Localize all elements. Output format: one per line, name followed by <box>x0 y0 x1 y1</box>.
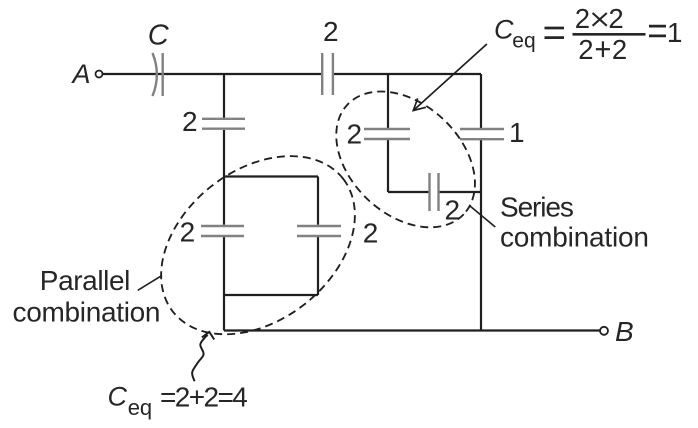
capacitor 2 left branch <box>202 119 245 129</box>
wire right vertical <box>480 74 482 331</box>
capacitor 2 parallel left <box>201 226 244 236</box>
svg-text:2: 2 <box>578 34 593 65</box>
svg-text:combination: combination <box>13 296 161 327</box>
wire middle vertical <box>387 74 389 192</box>
svg-text:2: 2 <box>608 3 623 34</box>
svg-text:Parallel: Parallel <box>40 265 130 296</box>
svg-text:2: 2 <box>363 217 379 248</box>
svg-text:2: 2 <box>445 195 461 226</box>
svg-text:A: A <box>71 59 91 89</box>
svg-text:2: 2 <box>323 16 339 47</box>
capacitor 2 top <box>322 53 333 95</box>
wire parallel loop right vertical <box>317 177 319 296</box>
capacitor 2 parallel right <box>297 226 341 236</box>
wire parallel loop top <box>224 175 318 177</box>
svg-text:=2+2=4: =2+2=4 <box>160 382 247 413</box>
dashed ellipse parallel combination <box>127 119 390 370</box>
wire top right segment <box>334 73 481 75</box>
terminal B <box>600 327 608 335</box>
svg-text:2: 2 <box>612 34 627 65</box>
capacitor 2 series horizontal <box>430 173 439 211</box>
svg-text:eq: eq <box>128 395 152 420</box>
svg-text:combination: combination <box>500 221 649 252</box>
svg-text:eq: eq <box>512 29 535 52</box>
svg-text:1: 1 <box>667 17 683 48</box>
svg-text:2: 2 <box>575 3 590 34</box>
formula Ceq = 2x2/2+2 = 1 <box>494 3 682 65</box>
wire main left vertical <box>223 74 225 331</box>
dashed ellipse series combination <box>310 65 502 255</box>
series leader line <box>470 206 495 227</box>
parallel leader line <box>138 275 162 290</box>
arrow from Ceq formula to series ellipse <box>413 44 487 111</box>
svg-text:C: C <box>148 20 170 52</box>
svg-text:C: C <box>108 382 128 412</box>
capacitor 2 middle branch <box>364 129 410 139</box>
svg-text:2: 2 <box>182 106 198 137</box>
svg-text:1: 1 <box>509 117 525 148</box>
terminal A <box>96 71 103 78</box>
wire bottom <box>224 329 600 331</box>
formula Ceq = 2+2 = 4 <box>108 382 248 421</box>
capacitor C <box>153 53 163 96</box>
svg-text:C: C <box>494 15 514 45</box>
squiggly arrow to parallel ellipse <box>192 332 214 382</box>
svg-text:Series: Series <box>500 192 573 223</box>
svg-text:2: 2 <box>180 217 196 248</box>
wire parallel loop bottom <box>224 294 318 296</box>
wire series loop bottom <box>388 191 481 193</box>
capacitor 1 right branch <box>460 129 504 139</box>
wire top left segment <box>103 73 321 75</box>
svg-text:2: 2 <box>347 119 363 150</box>
svg-text:B: B <box>615 316 634 347</box>
